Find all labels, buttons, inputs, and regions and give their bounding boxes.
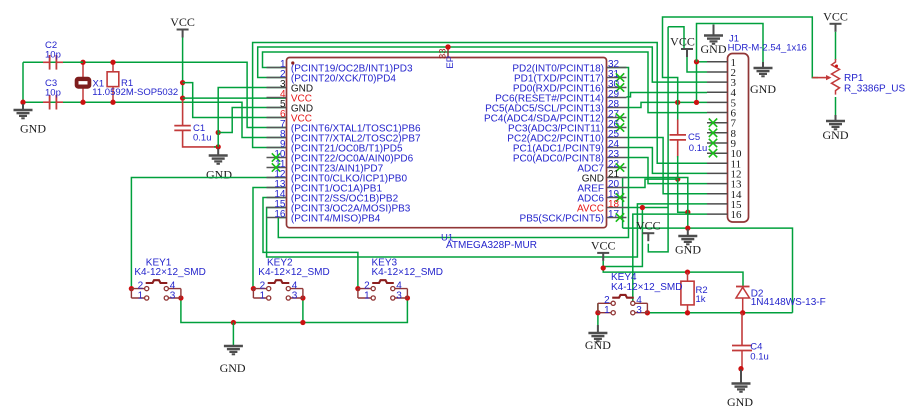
svg-text:RP1: RP1 [844,73,864,84]
svg-text:10p: 10p [45,87,61,98]
svg-text:16: 16 [274,209,286,220]
svg-text:GND: GND [206,168,232,182]
svg-text:16: 16 [731,209,743,221]
svg-text:(PCINT4/MISO)PB4: (PCINT4/MISO)PB4 [291,213,381,224]
svg-text:EP: EP [445,56,456,69]
svg-text:GND: GND [727,395,753,409]
svg-text:1: 1 [364,291,370,302]
svg-text:1: 1 [138,291,144,302]
svg-text:0.1u: 0.1u [689,143,708,154]
svg-text:3: 3 [636,305,642,316]
svg-text:K4-12×12_SMD: K4-12×12_SMD [611,282,682,293]
svg-text:VCC: VCC [823,9,848,23]
svg-text:R1: R1 [121,78,133,89]
svg-text:1N4148WS-13-F: 1N4148WS-13-F [751,297,826,308]
svg-text:GND: GND [701,42,727,56]
svg-text:0.1u: 0.1u [193,133,212,144]
svg-text:1: 1 [260,291,266,302]
svg-text:HDR-M-2.54_1x16: HDR-M-2.54_1x16 [728,43,807,54]
svg-text:11.0592M-SOP5032: 11.0592M-SOP5032 [92,87,178,98]
svg-text:3: 3 [170,291,176,302]
svg-text:GND: GND [220,361,246,375]
svg-text:PB5(SCK/PCINT5): PB5(SCK/PCINT5) [520,213,604,224]
svg-text:1k: 1k [696,294,706,305]
svg-text:ATMEGA328P-MUR: ATMEGA328P-MUR [446,240,537,251]
svg-text:GND: GND [20,122,46,136]
svg-text:VCC: VCC [636,219,661,233]
svg-text:GND: GND [750,82,776,96]
svg-text:GND: GND [585,338,611,352]
svg-text:K4-12×12_SMD: K4-12×12_SMD [372,267,443,278]
svg-text:K4-12×12_SMD: K4-12×12_SMD [134,267,205,278]
svg-text:VCC: VCC [591,238,616,252]
svg-text:1: 1 [604,305,610,316]
svg-text:3: 3 [292,291,298,302]
svg-text:VCC: VCC [170,15,195,29]
svg-text:GND: GND [675,242,701,256]
svg-text:C5: C5 [688,132,700,143]
svg-text:10p: 10p [45,49,61,60]
svg-text:0.1u: 0.1u [750,351,769,362]
svg-text:R_3386P_US: R_3386P_US [844,84,905,95]
svg-text:3: 3 [396,291,402,302]
svg-text:GND: GND [823,128,849,142]
svg-text:K4-12×12_SMD: K4-12×12_SMD [258,267,329,278]
svg-text:VCC: VCC [670,35,695,49]
